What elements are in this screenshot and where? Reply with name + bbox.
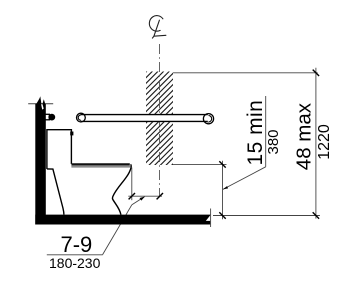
svg-text:7-9: 7-9 bbox=[61, 232, 93, 257]
svg-text:180-230: 180-230 bbox=[49, 255, 101, 271]
svg-text:380: 380 bbox=[265, 129, 282, 154]
svg-text:1220: 1220 bbox=[316, 124, 333, 160]
svg-text:15 min: 15 min bbox=[244, 100, 267, 166]
svg-text:48 max: 48 max bbox=[293, 102, 316, 170]
